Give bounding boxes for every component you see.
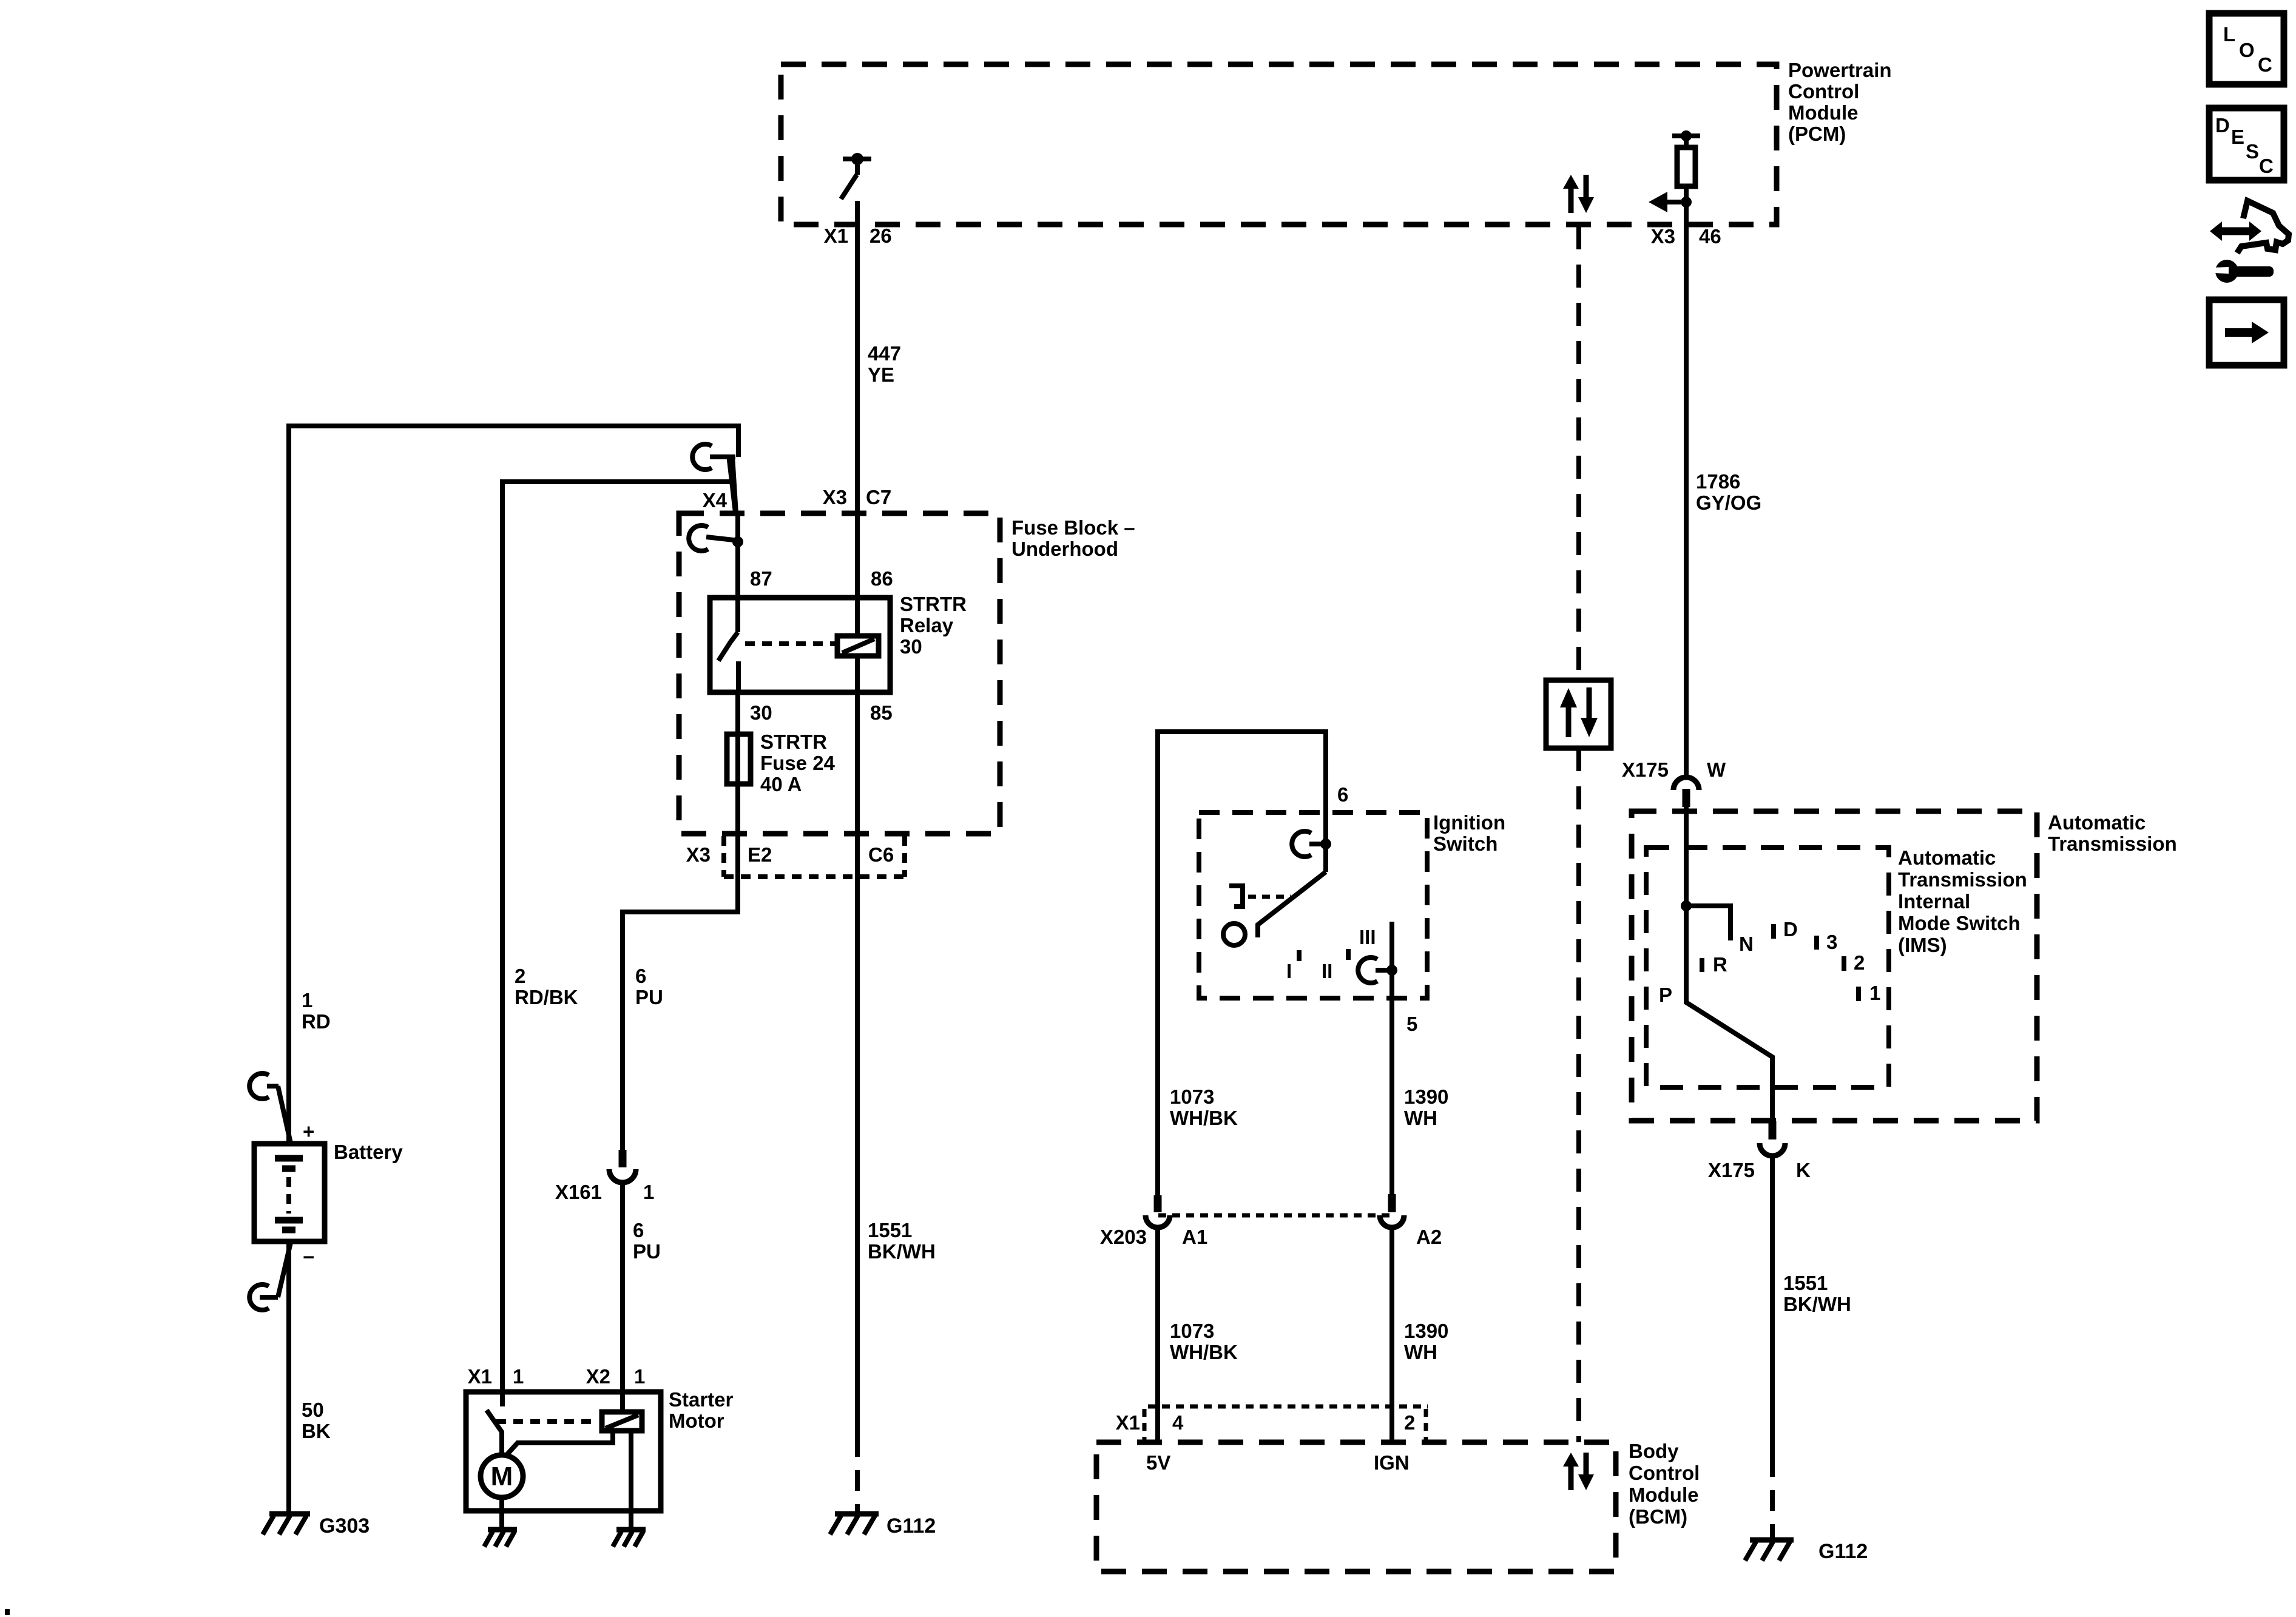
module box Fuse Block - Underhood bbox=[679, 513, 1000, 834]
svg-text:K: K bbox=[1796, 1159, 1811, 1181]
connector label X1 (starter) bbox=[468, 1365, 492, 1388]
svg-text:1551: 1551 bbox=[868, 1219, 912, 1241]
svg-text:D: D bbox=[1783, 918, 1798, 940]
module box Automatic Transmission bbox=[1632, 811, 2037, 1121]
connector label X203 bbox=[1100, 1226, 1147, 1248]
svg-text:I: I bbox=[1286, 960, 1292, 982]
wire 1390 WH from X203 A2 to BCM X1-2 bbox=[1389, 1229, 1394, 1442]
wire label 1551 BK/WH (right) bbox=[1783, 1272, 1851, 1315]
connector label X175 (W) bbox=[1622, 758, 1669, 781]
svg-text:N: N bbox=[1739, 933, 1754, 955]
svg-text:G112: G112 bbox=[886, 1514, 936, 1538]
svg-text:G112: G112 bbox=[1818, 1540, 1868, 1563]
wire from X175 W into IMS bbox=[1684, 807, 1689, 906]
wire label 1073 WH/BK (upper) bbox=[1170, 1085, 1238, 1129]
svg-text:(PCM): (PCM) bbox=[1788, 123, 1846, 145]
dashed wire to G112 left bbox=[855, 1436, 860, 1511]
svg-text:Fuse 24: Fuse 24 bbox=[760, 752, 836, 774]
svg-text:3: 3 bbox=[1826, 931, 1837, 953]
svg-text:Control: Control bbox=[1629, 1462, 1700, 1484]
svg-text:6: 6 bbox=[633, 1219, 644, 1241]
pin label C7 bbox=[866, 486, 891, 508]
svg-text:87: 87 bbox=[750, 567, 772, 590]
svg-text:WH/BK: WH/BK bbox=[1170, 1341, 1238, 1363]
wire from battery positive to fuse block X4 bbox=[289, 426, 738, 1144]
wire 6 PU from X161 to starter solenoid X2-1 bbox=[620, 1183, 625, 1412]
icon box DESC bbox=[2209, 108, 2284, 180]
svg-text:WH: WH bbox=[1404, 1341, 1437, 1363]
position label I bbox=[1286, 960, 1292, 982]
svg-text:X203: X203 bbox=[1100, 1226, 1147, 1248]
svg-text:Ignition: Ignition bbox=[1433, 811, 1505, 834]
wire 50 BK from battery negative to G303 bbox=[286, 1241, 291, 1512]
connector X203 pin A2 bbox=[1380, 1194, 1404, 1227]
label Battery bbox=[334, 1141, 403, 1163]
pin label 86 bbox=[871, 567, 893, 590]
label Powertrain Control Module (PCM) bbox=[1788, 59, 1892, 145]
port label IGN bbox=[1374, 1451, 1410, 1474]
pin label 4 bbox=[1172, 1411, 1184, 1434]
node splice junction on 87 feed bbox=[732, 536, 743, 547]
svg-text:IGN: IGN bbox=[1374, 1451, 1410, 1474]
position label D bbox=[1783, 918, 1798, 940]
svg-text:2: 2 bbox=[1404, 1411, 1415, 1434]
svg-text:26: 26 bbox=[869, 224, 892, 247]
dashed wire to G112 right bbox=[1770, 1456, 1775, 1538]
IMS wiper arm to P and output bbox=[1686, 906, 1772, 1121]
starter motor box bbox=[466, 1392, 661, 1511]
resistor inside PCM (pull-up on IMS signal) bbox=[1672, 130, 1700, 202]
ground G112 left bbox=[830, 1514, 879, 1534]
position label P bbox=[1659, 984, 1672, 1006]
wire from starter motor X1-1 up to X4 feed bbox=[502, 482, 732, 1406]
pin label 2 bbox=[1404, 1411, 1415, 1434]
svg-text:Transmission: Transmission bbox=[1898, 868, 2027, 891]
svg-text:III: III bbox=[1359, 926, 1376, 948]
position tick 1 bbox=[1856, 987, 1861, 1001]
relay mechanical linkage dashed bbox=[745, 641, 835, 646]
connector label X1 bbox=[824, 224, 848, 247]
svg-text:6: 6 bbox=[635, 965, 646, 987]
svg-text:1073: 1073 bbox=[1170, 1320, 1214, 1342]
wire label 1073 WH/BK (lower) bbox=[1170, 1320, 1238, 1363]
svg-text:S: S bbox=[2246, 140, 2259, 163]
svg-text:1390: 1390 bbox=[1404, 1320, 1448, 1342]
position label R bbox=[1713, 953, 1727, 976]
svg-text:X2: X2 bbox=[586, 1365, 610, 1388]
battery positive cable clamp bbox=[249, 1073, 291, 1143]
pin label 1 (starter X2) bbox=[634, 1365, 645, 1388]
svg-text:II: II bbox=[1322, 960, 1332, 982]
module box Powertrain Control Module (PCM) bbox=[781, 64, 1777, 224]
position label III bbox=[1359, 926, 1376, 948]
svg-text:1551: 1551 bbox=[1783, 1272, 1828, 1294]
svg-text:1: 1 bbox=[1869, 982, 1880, 1004]
position tick D bbox=[1771, 924, 1776, 939]
dashed serial data wire from link box to BCM bbox=[1576, 748, 1581, 1442]
svg-text:STRTR: STRTR bbox=[760, 731, 827, 753]
wire 1551 BK/WH from relay 85 down to G112 bbox=[855, 656, 860, 1436]
label Automatic Transmission bbox=[2048, 811, 2177, 855]
svg-text:YE: YE bbox=[868, 363, 894, 386]
wire 447 YE from PCM X1-26 down to relay coil pin 86 bbox=[855, 201, 860, 636]
svg-text:447: 447 bbox=[868, 342, 901, 365]
svg-text:W: W bbox=[1707, 758, 1726, 781]
svg-text:RD/BK: RD/BK bbox=[515, 986, 578, 1008]
svg-text:86: 86 bbox=[871, 567, 893, 590]
connector label X3 (fuse block bottom) bbox=[686, 843, 711, 866]
svg-text:A1: A1 bbox=[1182, 1226, 1207, 1248]
label STRTR Fuse 24 40 A bbox=[760, 731, 836, 795]
ground label G303 bbox=[319, 1514, 370, 1538]
svg-text:30: 30 bbox=[750, 701, 772, 724]
module box Ignition Switch bbox=[1199, 812, 1427, 998]
svg-text:Motor: Motor bbox=[669, 1409, 724, 1432]
svg-text:Module: Module bbox=[1788, 101, 1858, 124]
starter solenoid coil bbox=[602, 1412, 642, 1431]
svg-text:X3: X3 bbox=[1651, 225, 1675, 248]
svg-text:1: 1 bbox=[634, 1365, 645, 1388]
svg-text:C: C bbox=[2259, 155, 2274, 177]
svg-text:E: E bbox=[2231, 126, 2244, 148]
svg-text:46: 46 bbox=[1699, 225, 1721, 248]
dashed serial data wire from PCM to BCM bbox=[1576, 226, 1581, 680]
svg-text:X175: X175 bbox=[1622, 758, 1669, 781]
position tick R bbox=[1700, 958, 1704, 972]
fuse STRTR Fuse 24 40 A bbox=[727, 734, 751, 784]
serial data arrows inside PCM bbox=[1563, 175, 1594, 213]
svg-text:BK/WH: BK/WH bbox=[868, 1240, 936, 1263]
svg-text:O: O bbox=[2239, 39, 2255, 61]
module box Body Control Module (BCM) bbox=[1096, 1442, 1616, 1571]
svg-text:Automatic: Automatic bbox=[1898, 846, 1996, 869]
polarity label plus bbox=[303, 1120, 314, 1143]
svg-text:GY/OG: GY/OG bbox=[1696, 491, 1761, 514]
connector label X161 bbox=[555, 1181, 602, 1203]
svg-text:C: C bbox=[2258, 53, 2272, 76]
svg-text:WH: WH bbox=[1404, 1107, 1437, 1129]
svg-text:C7: C7 bbox=[866, 486, 891, 508]
connector X203 pin A1 bbox=[1146, 1195, 1170, 1227]
svg-text:+: + bbox=[303, 1120, 314, 1143]
svg-text:1: 1 bbox=[302, 989, 312, 1011]
svg-text:X161: X161 bbox=[555, 1181, 602, 1203]
wire label 1786 GY/OG bbox=[1696, 470, 1761, 514]
svg-text:Module: Module bbox=[1629, 1484, 1698, 1506]
svg-text:4: 4 bbox=[1172, 1411, 1184, 1434]
svg-text:X175: X175 bbox=[1708, 1159, 1755, 1181]
polarity label minus bbox=[303, 1246, 314, 1268]
wire 1786 GY/OG from PCM X3-46 down to X175 W bbox=[1684, 202, 1689, 777]
wire label 2 RD/BK bbox=[515, 965, 578, 1008]
connector label X3 bbox=[1651, 225, 1675, 248]
svg-text:40 A: 40 A bbox=[760, 773, 802, 795]
page mark dot bbox=[5, 1609, 10, 1615]
svg-text:X1: X1 bbox=[824, 224, 848, 247]
svg-text:RD: RD bbox=[302, 1010, 331, 1033]
pin label 1 (starter X1) bbox=[513, 1365, 524, 1388]
position label N bbox=[1739, 933, 1754, 955]
relay STRTR Relay box bbox=[710, 598, 890, 692]
connector label X1 (BCM) bbox=[1116, 1411, 1140, 1434]
relay coil (pins 86-85) bbox=[837, 636, 879, 656]
wire label 50 BK bbox=[302, 1399, 331, 1442]
svg-text:5V: 5V bbox=[1146, 1451, 1170, 1474]
switch contact inside PCM (starter enable) bbox=[841, 153, 871, 199]
pin label 1 bbox=[643, 1181, 654, 1203]
pin label 6 bbox=[1337, 783, 1348, 806]
svg-text:R: R bbox=[1713, 953, 1727, 976]
wire 1551 BK/WH from X175 K to G112 bbox=[1770, 1156, 1775, 1456]
serial data link box with up-down arrows bbox=[1546, 680, 1611, 748]
position label II bbox=[1322, 960, 1332, 982]
key cylinder circle bbox=[1223, 923, 1245, 945]
ground label G112 left bbox=[886, 1514, 936, 1538]
icon box forward arrow bbox=[2209, 300, 2284, 365]
wire label 6 PU (upper) bbox=[635, 965, 663, 1008]
key linkage symbol bbox=[1229, 886, 1291, 906]
label Starter Motor bbox=[669, 1388, 734, 1432]
svg-text:85: 85 bbox=[870, 701, 893, 724]
position label 1 bbox=[1869, 982, 1880, 1004]
svg-text:1073: 1073 bbox=[1170, 1085, 1214, 1108]
svg-text:(IMS): (IMS) bbox=[1898, 934, 1947, 956]
svg-text:5: 5 bbox=[1406, 1013, 1417, 1035]
svg-text:Control: Control bbox=[1788, 80, 1859, 103]
svg-text:A2: A2 bbox=[1416, 1226, 1442, 1248]
ground G112 right bbox=[1745, 1540, 1794, 1561]
svg-text:Switch: Switch bbox=[1433, 832, 1497, 855]
node junction at IMS wiper bbox=[1681, 900, 1692, 911]
inline connector X175 pin K bbox=[1760, 1121, 1785, 1156]
connector X203 row bbox=[1158, 1214, 1392, 1218]
pin label E2 bbox=[748, 843, 772, 866]
svg-text:Transmission: Transmission bbox=[2048, 832, 2177, 855]
svg-text:1390: 1390 bbox=[1404, 1085, 1448, 1108]
svg-text:Body: Body bbox=[1629, 1440, 1679, 1462]
svg-text:(BCM): (BCM) bbox=[1629, 1505, 1687, 1528]
ground label G112 right bbox=[1818, 1540, 1868, 1563]
svg-text:1: 1 bbox=[643, 1181, 654, 1203]
svg-text:6: 6 bbox=[1337, 783, 1348, 806]
connector X1 row at BCM bbox=[1144, 1406, 1428, 1441]
svg-text:Relay: Relay bbox=[900, 614, 954, 636]
port label 5V bbox=[1146, 1451, 1170, 1474]
wire label 1 RD bbox=[302, 989, 331, 1033]
icon diagnostic wrench with double arrow bbox=[2210, 201, 2289, 283]
wire X4 feed inside fuse block to relay pin 87 bbox=[735, 513, 740, 598]
svg-text:Automatic: Automatic bbox=[2048, 811, 2146, 834]
position tick II bbox=[1346, 949, 1351, 960]
svg-text:X1: X1 bbox=[468, 1365, 492, 1388]
svg-text:G303: G303 bbox=[319, 1514, 370, 1538]
crimp splice clip on 87 feed bbox=[689, 525, 734, 551]
svg-text:1: 1 bbox=[513, 1365, 524, 1388]
svg-text:X4: X4 bbox=[703, 489, 728, 511]
svg-text:BK: BK bbox=[302, 1420, 331, 1442]
wire from solenoid coil to motor bbox=[505, 1431, 613, 1456]
wire 1073 WH/BK from X203 A1 to BCM X1-4 bbox=[1155, 1229, 1160, 1442]
splice clip on pin 6 wire bbox=[1292, 831, 1331, 857]
position label 3 bbox=[1826, 931, 1837, 953]
pin label 5 bbox=[1406, 1013, 1417, 1035]
svg-text:Powertrain: Powertrain bbox=[1788, 59, 1892, 81]
label Automatic Transmission Internal Mode Switch (IMS) bbox=[1898, 846, 2027, 956]
svg-text:E2: E2 bbox=[748, 843, 772, 866]
wire 1390 WH from ignition pin 5 down to X203 A2 bbox=[1389, 922, 1394, 1194]
wire 1073 WH/BK loop up to ignition switch pin 6 bbox=[1158, 732, 1326, 1195]
svg-text:WH/BK: WH/BK bbox=[1170, 1107, 1238, 1129]
connector box X3 at fuse block bottom bbox=[724, 836, 905, 877]
svg-text:C6: C6 bbox=[868, 843, 894, 866]
svg-text:X1: X1 bbox=[1116, 1411, 1140, 1434]
pin label A2 bbox=[1416, 1226, 1442, 1248]
inline connector X175 pin W bbox=[1673, 777, 1699, 807]
svg-text:L: L bbox=[2223, 23, 2235, 46]
svg-text:X3: X3 bbox=[823, 486, 847, 508]
svg-text:−: − bbox=[303, 1246, 314, 1268]
pin label A1 bbox=[1182, 1226, 1207, 1248]
svg-text:Mode Switch: Mode Switch bbox=[1898, 912, 2021, 934]
wire motor to case ground bbox=[499, 1497, 504, 1528]
wire solenoid coil to case ground bbox=[629, 1431, 633, 1528]
starter solenoid contact arm bbox=[487, 1410, 502, 1455]
starter solenoid linkage dashed bbox=[496, 1419, 598, 1424]
icon box LOC bbox=[2209, 13, 2284, 84]
svg-text:Internal: Internal bbox=[1898, 890, 1970, 913]
crimp splice clip at X4 feed bbox=[692, 444, 735, 470]
motor M bbox=[481, 1455, 523, 1497]
IMS contact N branch bbox=[1686, 906, 1730, 940]
splice clip on pin 5 wire bbox=[1358, 957, 1397, 983]
svg-text:2: 2 bbox=[1854, 951, 1865, 974]
svg-text:1786: 1786 bbox=[1696, 470, 1740, 493]
wire label 447 YE bbox=[868, 342, 901, 386]
label Fuse Block - Underhood bbox=[1011, 516, 1135, 560]
pin label 87 bbox=[750, 567, 772, 590]
svg-text:STRTR: STRTR bbox=[900, 593, 967, 615]
svg-text:P: P bbox=[1659, 984, 1672, 1006]
svg-text:Battery: Battery bbox=[334, 1141, 403, 1163]
position label 2 bbox=[1854, 951, 1865, 974]
connector label X3 (fuse block top) bbox=[823, 486, 847, 508]
pin label 46 bbox=[1699, 225, 1721, 248]
module box Automatic Transmission Internal Mode Switch (IMS) bbox=[1646, 848, 1889, 1087]
pin label 26 bbox=[869, 224, 892, 247]
wire label 1390 WH (lower) bbox=[1404, 1320, 1448, 1363]
svg-text:PU: PU bbox=[633, 1240, 661, 1263]
connector label X2 (starter) bbox=[586, 1365, 610, 1388]
relay contact arm (pins 87-30) bbox=[718, 598, 738, 692]
pin label C6 bbox=[868, 843, 894, 866]
pin label K bbox=[1796, 1159, 1811, 1181]
connector label X175 (K) bbox=[1708, 1159, 1755, 1181]
pin label 85 bbox=[870, 701, 893, 724]
svg-text:50: 50 bbox=[302, 1399, 324, 1421]
arrow terminal into fuse block X4 bbox=[726, 455, 738, 513]
svg-text:PU: PU bbox=[635, 986, 663, 1008]
svg-text:BK/WH: BK/WH bbox=[1783, 1293, 1851, 1315]
svg-text:30: 30 bbox=[900, 635, 922, 658]
ignition switch contact arm bbox=[1258, 872, 1326, 937]
wire from relay 30 through fuse and jog to X161 bbox=[623, 692, 738, 1151]
ground starter motor left bbox=[484, 1530, 517, 1547]
svg-text:Underhood: Underhood bbox=[1011, 538, 1118, 560]
node junction with left arrow (signal into PCM) bbox=[1649, 192, 1692, 212]
position tick 3 bbox=[1814, 936, 1819, 950]
svg-text:2: 2 bbox=[515, 965, 525, 987]
wire label 1390 WH (upper) bbox=[1404, 1085, 1448, 1129]
position tick I bbox=[1297, 950, 1302, 961]
pin label W bbox=[1707, 758, 1726, 781]
svg-text:Starter: Starter bbox=[669, 1388, 734, 1411]
label STRTR Relay 30 bbox=[900, 593, 967, 658]
position tick 2 bbox=[1842, 956, 1846, 971]
svg-text:X3: X3 bbox=[686, 843, 711, 866]
label Ignition Switch bbox=[1433, 811, 1505, 855]
inline connector X161 pin 1 bbox=[609, 1150, 636, 1183]
battery negative cable clamp bbox=[249, 1243, 291, 1310]
pin label 30 bbox=[750, 701, 772, 724]
svg-text:D: D bbox=[2215, 114, 2230, 137]
ground G303 bbox=[263, 1514, 310, 1534]
connector label X4 bbox=[703, 489, 728, 511]
ground starter solenoid right bbox=[613, 1530, 646, 1547]
label Body Control Module (BCM) bbox=[1629, 1440, 1700, 1528]
svg-text:M: M bbox=[491, 1462, 513, 1491]
svg-text:Fuse Block –: Fuse Block – bbox=[1011, 516, 1135, 539]
battery bbox=[254, 1144, 325, 1241]
wire label 1551 BK/WH (left) bbox=[868, 1219, 936, 1263]
serial data arrows inside BCM bbox=[1563, 1453, 1594, 1490]
wire label 6 PU (lower) bbox=[633, 1219, 661, 1263]
